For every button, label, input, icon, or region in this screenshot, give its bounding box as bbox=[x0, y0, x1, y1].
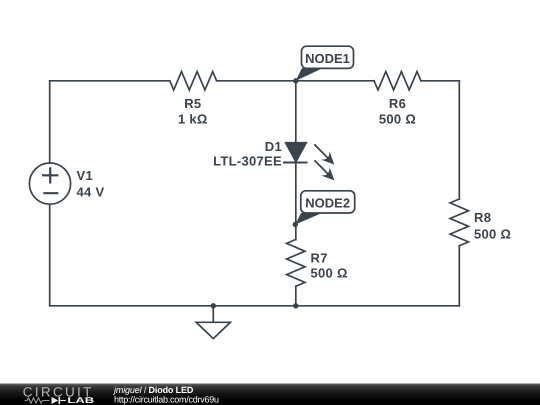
resistor R6 bbox=[374, 72, 421, 90]
wire left rail upper bbox=[49, 81, 51, 163]
svg-text:NODE1: NODE1 bbox=[305, 51, 350, 66]
footer bar bbox=[0, 384, 540, 405]
junction dot bottom middle bbox=[293, 303, 298, 308]
svg-text:V1: V1 bbox=[77, 168, 94, 183]
svg-text:R5: R5 bbox=[184, 96, 201, 111]
node NODE2 callout bbox=[295, 191, 354, 225]
node junction dot NODE1 bbox=[293, 78, 298, 83]
wire top-left horizontal bbox=[50, 80, 170, 82]
resistor R7 bbox=[287, 240, 305, 287]
wire top-right horizontal bbox=[421, 80, 459, 82]
logo squiggle resistor bbox=[25, 398, 50, 403]
wire bottom rail bbox=[50, 305, 460, 307]
svg-text:500 Ω: 500 Ω bbox=[311, 265, 348, 280]
svg-text:44 V: 44 V bbox=[77, 185, 105, 200]
svg-text:http://circuitlab.com/cdrv69u: http://circuitlab.com/cdrv69u bbox=[114, 395, 219, 405]
wire top-middle horizontal bbox=[217, 80, 375, 82]
svg-text:500 Ω: 500 Ω bbox=[474, 227, 511, 242]
svg-text:R7: R7 bbox=[311, 251, 328, 266]
ground bbox=[196, 306, 230, 339]
svg-text:D1: D1 bbox=[265, 139, 282, 154]
wire left rail lower bbox=[49, 204, 51, 306]
svg-text:jmiguel / Diodo LED: jmiguel / Diodo LED bbox=[113, 385, 194, 395]
LED arrow 2 bbox=[314, 160, 334, 180]
node NODE1 callout bbox=[296, 46, 354, 81]
svg-text:R8: R8 bbox=[474, 210, 491, 225]
wire middle drop to LED bbox=[295, 81, 297, 143]
svg-text:LTL-307EE: LTL-307EE bbox=[213, 153, 282, 168]
resistor R5 bbox=[170, 72, 217, 90]
wire right rail lower bbox=[458, 246, 460, 306]
svg-text:1 kΩ: 1 kΩ bbox=[178, 112, 208, 127]
wire LED to R7 bbox=[295, 163, 297, 240]
junction dot ground bbox=[211, 303, 216, 308]
svg-text:R6: R6 bbox=[389, 96, 406, 111]
LED arrow 1 bbox=[314, 144, 334, 164]
wire right rail upper bbox=[458, 81, 460, 199]
resistor R8 bbox=[450, 199, 468, 246]
svg-text:NODE2: NODE2 bbox=[305, 195, 350, 210]
svg-text:LAB: LAB bbox=[67, 395, 94, 405]
svg-text:500 Ω: 500 Ω bbox=[379, 112, 416, 127]
voltage source V1 bbox=[29, 163, 70, 204]
logo diode bbox=[52, 397, 66, 404]
LED D1 bbox=[283, 142, 334, 180]
wire R7 to bottom bbox=[295, 286, 297, 305]
node junction dot NODE2 bbox=[293, 222, 298, 227]
